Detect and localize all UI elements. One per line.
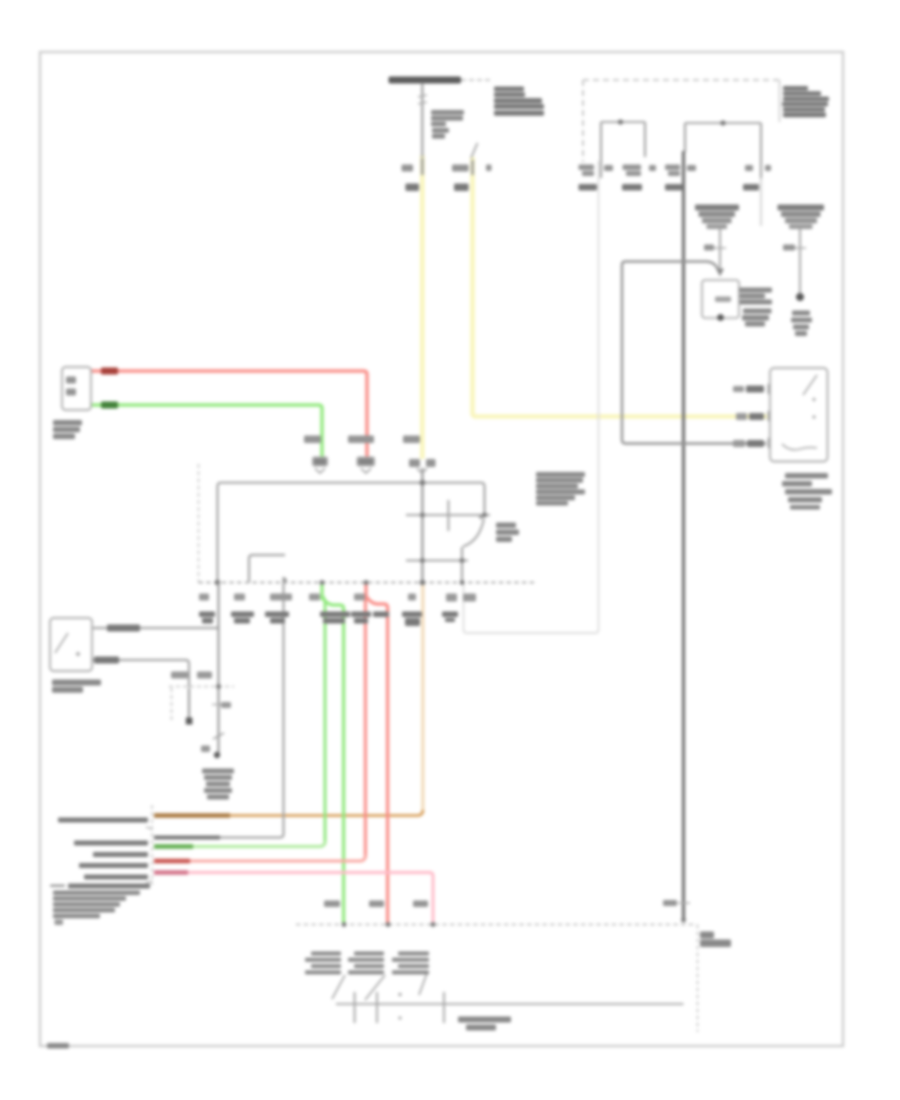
bottom switch crossing ticks <box>354 992 356 1023</box>
diagonal wire start Y2 <box>471 143 478 158</box>
text connector C100 labels <box>579 184 598 191</box>
module vertical yellow-pin wire <box>421 468 423 583</box>
module vertical arm wire <box>461 547 463 583</box>
text harness circuit labels <box>58 818 148 823</box>
bottom switch pin dots <box>342 922 347 927</box>
splice2 vertical <box>799 229 801 293</box>
text wire color labels below module <box>199 612 215 618</box>
sub connector dashed <box>169 686 234 688</box>
splice pack S1 symbol <box>695 205 739 211</box>
bus bar black <box>389 77 462 84</box>
text park switch label <box>496 523 516 529</box>
faint unused circuit path <box>464 161 599 633</box>
text wire labels above module <box>304 436 321 444</box>
text wiper washer switch label <box>785 473 828 479</box>
text fusible link label <box>431 110 464 115</box>
wire red B7 stub <box>364 584 367 598</box>
wire pink row5 + down to bottom switch <box>154 873 433 924</box>
arrow into relay <box>716 269 724 277</box>
label blobs on wire ends at connector <box>313 458 327 466</box>
text splice S214 label <box>202 769 234 774</box>
fusible link vertical <box>421 83 423 157</box>
fuse F1 <box>601 121 645 123</box>
text connector C2 label <box>700 932 714 939</box>
text fuse pin labels <box>579 165 595 171</box>
fuse block faint right <box>779 80 781 122</box>
text relay internal label <box>715 297 731 303</box>
pin tick Y2 <box>471 160 474 175</box>
C1 gray wire down to row2 <box>154 577 284 838</box>
text switch position labels g2 <box>354 952 384 956</box>
text splice1 pin label <box>704 245 714 251</box>
row2 darker start blob <box>154 836 220 840</box>
splice1 vertical <box>719 229 721 268</box>
wiper switch pins <box>768 384 770 394</box>
text module pin numbers <box>199 594 209 601</box>
wire red row4 darker start blob <box>154 859 190 863</box>
fuse F2 <box>685 122 761 124</box>
label GRN on green wire <box>101 402 118 409</box>
wire red washer pump to connector <box>91 371 367 461</box>
dark loop: down and right to wiper switch <box>622 262 766 444</box>
main left vertical below module <box>217 583 219 756</box>
main dark vertical <box>682 151 685 920</box>
washer pump motor marks <box>66 377 76 384</box>
washer pump box <box>62 367 91 410</box>
splice2 dot <box>796 293 804 301</box>
wire green washer pump to connector <box>91 405 322 461</box>
bottom switch arms <box>332 975 345 999</box>
text switch position labels g3 <box>398 952 429 956</box>
light switch box <box>50 618 92 671</box>
wire green branchB to bottom switch <box>322 597 344 923</box>
module dashed bottom edge <box>199 582 537 584</box>
text wiper switch pin labels <box>733 386 744 392</box>
text relay name label <box>739 288 772 293</box>
label RED on red wire <box>101 368 118 375</box>
text battery pin labels <box>402 165 414 172</box>
text wire labels at bottom switch <box>324 901 340 908</box>
module pin dots <box>215 580 221 586</box>
frame label bottom left <box>47 1043 69 1049</box>
light switch wire2 <box>93 660 189 687</box>
wire green row3 darker start blob <box>154 844 193 848</box>
wire yellow Y1 vertical <box>420 155 425 459</box>
connector chevrons above module <box>315 469 325 474</box>
wire red branchA to row4 <box>364 599 367 858</box>
module dashed left edge <box>198 464 200 583</box>
module relay line2 <box>406 560 468 562</box>
text connector labels battery <box>405 184 419 192</box>
bottom switch common line <box>336 1003 684 1005</box>
text label D on main vertical <box>221 702 231 708</box>
label on light switch wire2 <box>94 657 119 664</box>
text light switch label <box>52 680 101 686</box>
loop curve into relay <box>707 262 719 272</box>
wire green D2 stub <box>320 584 323 600</box>
wiper switch box right <box>770 368 828 462</box>
wire orange row1 darker start blob <box>154 813 230 818</box>
text wiper motor module label <box>536 472 585 477</box>
fuse block dashed left <box>582 80 584 162</box>
splice2 tick <box>794 247 806 249</box>
footnote mark <box>55 920 64 926</box>
C2 harness connector dashed <box>151 805 153 885</box>
wire red branchB to bottom switch <box>366 596 388 923</box>
module box: top internal wire <box>218 483 485 583</box>
text splice2 pin label <box>783 245 795 251</box>
wire green branchA to row3 <box>324 601 327 844</box>
text washer pump label <box>53 420 82 426</box>
text sub connector labels <box>171 672 188 679</box>
text hot-at-all-times label <box>783 86 808 91</box>
text label splice pin <box>201 746 210 753</box>
text splice S206 label <box>792 311 810 316</box>
light switch wire1 <box>93 627 219 629</box>
text footnote wiring note <box>458 1017 511 1023</box>
module relay arm <box>463 519 484 547</box>
text switch position labels g1 <box>311 952 341 956</box>
pin tick Y1 <box>421 158 424 175</box>
module relay tick <box>447 500 449 531</box>
module junction dots <box>420 480 426 486</box>
label on light switch wire1 <box>107 625 140 632</box>
wire pink row5 darker start blob <box>154 870 188 874</box>
bus bar dashed continuation <box>461 79 491 81</box>
wire yellow Y2 vertical+horizontal to wiper switch <box>473 157 768 417</box>
module L wire <box>249 555 285 583</box>
relay box <box>702 280 739 318</box>
dark line top tick <box>678 902 690 904</box>
splice pack S2 symbol <box>778 205 825 211</box>
bottom switch dashed box <box>296 924 697 926</box>
splice1 tick <box>714 247 726 249</box>
module relay line1 <box>406 514 490 516</box>
fuse block dashed top <box>583 79 779 81</box>
fusible link tick marks <box>418 95 427 104</box>
text body control module label <box>53 891 140 896</box>
text hot-in-run label <box>494 87 524 92</box>
wire orange B6 down + row1 left <box>421 584 424 813</box>
